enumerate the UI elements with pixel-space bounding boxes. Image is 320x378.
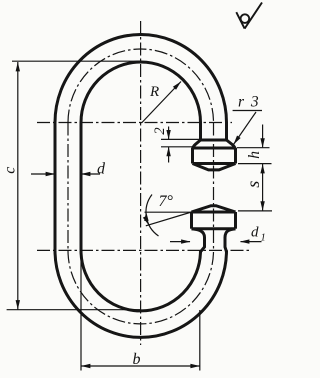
svg-text:1: 1 (261, 233, 266, 244)
svg-text:h: h (246, 151, 263, 159)
svg-text:R: R (149, 84, 159, 100)
svg-text:b: b (133, 351, 141, 368)
svg-text:d: d (251, 225, 259, 241)
svg-text:s: s (243, 181, 263, 188)
svg-text:d: d (97, 161, 106, 178)
svg-text:c: c (2, 167, 19, 174)
svg-text:2: 2 (152, 127, 168, 134)
svg-text:7°: 7° (159, 193, 174, 210)
svg-text:r 3: r 3 (238, 94, 260, 111)
